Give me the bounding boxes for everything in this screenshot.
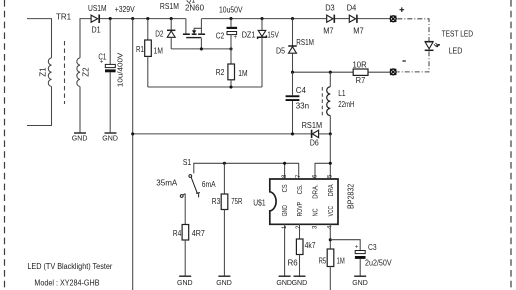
IC pin labels bottom row — [280, 202, 335, 217]
svg-text:10u50V: 10u50V — [219, 6, 243, 15]
inductor L1 22mH — [322, 72, 354, 134]
svg-text:R2: R2 — [216, 68, 225, 77]
svg-text:10R: 10R — [353, 60, 367, 69]
svg-text:D3: D3 — [325, 4, 335, 13]
capacitor C2 — [216, 6, 243, 49]
svg-text:GND: GND — [216, 278, 232, 287]
svg-text:S1: S1 — [183, 158, 192, 167]
ground (C1) — [102, 133, 118, 142]
wire : output rail y=72 — [293, 71, 391, 73]
svg-text:TR1: TR1 — [56, 12, 72, 21]
svg-text:CS.: CS. — [295, 184, 304, 194]
svg-text:GND: GND — [177, 278, 193, 287]
wire : node to IC pins 5/6 — [315, 134, 330, 179]
svg-text:4R7: 4R7 — [192, 229, 206, 238]
svg-text:ROVP: ROVP — [295, 202, 304, 217]
svg-text:BP2832: BP2832 — [345, 184, 355, 209]
svg-text:R6: R6 — [288, 259, 299, 268]
svg-text:10u/400V: 10u/400V — [116, 52, 125, 87]
diode D6 RS1M — [302, 121, 323, 148]
svg-text:D4: D4 — [347, 4, 357, 13]
diode D4 M7 — [347, 4, 364, 36]
svg-text:RS1M: RS1M — [296, 38, 314, 47]
resistor R7 10R — [353, 60, 369, 85]
terminal - (pad) — [390, 61, 406, 75]
svg-text:D1: D1 — [92, 26, 102, 35]
svg-text:75R: 75R — [231, 197, 242, 206]
svg-text:1M: 1M — [154, 46, 164, 55]
diode D5 RS1M — [276, 19, 314, 73]
diode D1 US1M — [88, 4, 107, 34]
svg-text:U$1: U$1 — [253, 198, 266, 207]
svg-text:DZ1: DZ1 — [242, 31, 256, 40]
svg-text:1M: 1M — [238, 69, 248, 78]
diode D2 RS1M — [155, 2, 179, 49]
ground (C3) — [352, 276, 368, 287]
svg-text:6mA: 6mA — [202, 180, 216, 189]
svg-text:+: + — [355, 245, 359, 251]
LED TEST LED — [425, 30, 474, 56]
svg-text:3: 3 — [312, 225, 318, 229]
resistor R2 — [216, 49, 248, 87]
svg-text:R5: R5 — [319, 256, 327, 265]
svg-text:Z1: Z1 — [38, 67, 47, 77]
svg-text:+329V: +329V — [115, 5, 136, 14]
capacitor C3 2u2/50V — [330, 240, 392, 276]
svg-text:US1M: US1M — [88, 4, 107, 13]
capacitor C4 33n — [286, 72, 309, 134]
winding Z2 — [77, 19, 91, 133]
svg-text:R4: R4 — [173, 229, 182, 238]
resistor R1 — [136, 19, 163, 87]
wire : S1 net to IC pins 7/8 — [194, 163, 299, 179]
svg-text:M7: M7 — [353, 26, 364, 35]
svg-text:C4: C4 — [296, 86, 307, 95]
svg-text:GND: GND — [102, 133, 118, 142]
svg-text:Model : XY284-GHB: Model : XY284-GHB — [34, 278, 99, 288]
svg-text:R3: R3 — [212, 197, 221, 206]
svg-text:2u2/50V: 2u2/50V — [365, 258, 392, 267]
resistor R3 75R — [212, 163, 243, 276]
svg-text:DRA: DRA — [326, 184, 335, 197]
svg-text:TEST LED: TEST LED — [442, 30, 474, 39]
ground (Z2) — [72, 133, 88, 142]
svg-text:D2: D2 — [155, 29, 164, 38]
node +329V : top rail — [100, 18, 390, 20]
IC pin labels top row — [280, 184, 335, 199]
svg-text:GND: GND — [352, 278, 368, 287]
frame left dashed — [4, 0, 6, 290]
wire : net Y (R1/R2/DZ1 bottoms) — [148, 86, 262, 88]
svg-text:C2: C2 — [216, 32, 225, 41]
svg-text:22mH: 22mH — [338, 100, 354, 109]
transformer core — [64, 41, 66, 104]
svg-text:D5: D5 — [276, 46, 285, 55]
labels TR1 Z1 Z2 — [38, 12, 90, 76]
svg-text:RS1M: RS1M — [160, 2, 179, 11]
junction dots on top rail — [109, 17, 294, 20]
svg-text:VCC: VCC — [326, 206, 335, 217]
svg-text:DRA.: DRA. — [310, 184, 319, 199]
svg-text:M7: M7 — [323, 26, 334, 35]
svg-text:D6: D6 — [310, 139, 319, 148]
svg-text:CS: CS — [280, 184, 289, 192]
svg-text:GND: GND — [72, 133, 88, 142]
ground (R6) — [292, 276, 308, 287]
frame right dashed — [510, 0, 512, 290]
svg-text:GND: GND — [276, 278, 292, 287]
svg-text:RS1M: RS1M — [302, 121, 323, 130]
ground (R3) — [216, 276, 232, 287]
switch S1 — [180, 175, 200, 198]
wire dash-dot to TEST LED — [397, 19, 429, 72]
resistor R6 4k7 — [288, 224, 316, 276]
resistor R5 1M + VCC node — [319, 224, 345, 290]
ground (R4) — [177, 276, 193, 287]
svg-text:35mA: 35mA — [156, 179, 178, 188]
svg-text:+: + — [100, 60, 104, 66]
terminal + (pad) — [390, 7, 404, 22]
svg-text:R1: R1 — [136, 45, 144, 54]
svg-text:GND: GND — [280, 205, 289, 217]
pin 1 stub/number + ground — [276, 224, 292, 286]
svg-text:Z2: Z2 — [81, 67, 90, 77]
svg-text:33n: 33n — [296, 101, 309, 110]
svg-text:LED: LED — [449, 47, 463, 56]
svg-text:C3: C3 — [368, 243, 377, 252]
wire : long vertical from +329V to bottom edge — [132, 19, 134, 290]
transformer TR1 — [27, 19, 52, 126]
op-amp U1 BP2832 IC body — [253, 179, 355, 224]
svg-text:LED (TV Blacklight) Tester: LED (TV Blacklight) Tester — [27, 262, 112, 271]
transistor Q1 2N60 MOSFET — [183, 0, 205, 49]
svg-text:R7: R7 — [356, 76, 366, 85]
node gate junctions — [200, 47, 203, 50]
svg-text:2N60: 2N60 — [185, 3, 205, 12]
wire : gate net — [171, 48, 231, 50]
svg-text:15V: 15V — [267, 31, 279, 40]
diode D3 M7 — [323, 4, 335, 36]
svg-text:+: + — [234, 35, 238, 41]
capacitor C1 — [98, 19, 124, 133]
svg-text:L1: L1 — [338, 89, 346, 98]
zener DZ1 15V — [242, 19, 280, 87]
svg-text:4k7: 4k7 — [305, 241, 316, 250]
svg-text:1M: 1M — [337, 256, 345, 265]
wire : feedback line y=134 — [133, 133, 331, 135]
resistor R4 4R7 — [173, 194, 205, 276]
svg-text:GND: GND — [292, 278, 308, 287]
svg-text:NC: NC — [310, 208, 319, 216]
